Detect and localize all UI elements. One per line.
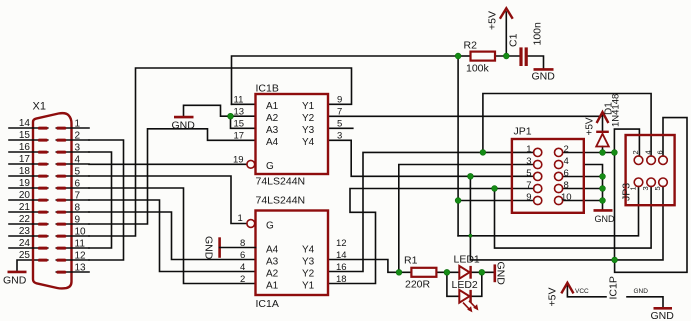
svg-text:GND: GND	[595, 214, 616, 224]
wire JP1 pin 4 to GND rail	[585, 165, 603, 211]
ground bar rotated at LEDs	[493, 264, 496, 282]
svg-text:G: G	[266, 161, 274, 172]
IC1A left pin numbers	[238, 213, 246, 285]
wire X1 pin 4 to IC1B pin 19 G	[89, 163, 247, 165]
svg-text:1: 1	[526, 144, 531, 155]
IC1A box	[256, 211, 329, 296]
wire X1 pin 3 to X1 pin 11	[89, 152, 112, 248]
svg-text:LED1: LED1	[454, 254, 480, 266]
D1 cathode bar	[596, 131, 609, 133]
svg-text:2: 2	[240, 274, 245, 285]
svg-text:5: 5	[526, 168, 531, 179]
svg-text:7: 7	[337, 107, 342, 118]
svg-text:IC1P: IC1P	[608, 276, 620, 299]
svg-text:8: 8	[240, 238, 245, 249]
svg-text:6: 6	[75, 179, 81, 190]
svg-text:A3: A3	[266, 125, 279, 136]
svg-text:19: 19	[233, 155, 244, 166]
IC1A right pin numbers	[336, 238, 347, 285]
wire R2 left	[458, 55, 470, 57]
svg-text:4: 4	[240, 262, 245, 273]
ground bar at IC1P	[654, 307, 673, 310]
svg-text:JP1: JP1	[514, 126, 532, 138]
svg-text:Y1: Y1	[302, 281, 315, 292]
pin header JP1 box	[512, 139, 584, 213]
svg-text:Y4: Y4	[302, 137, 315, 148]
svg-text:5: 5	[75, 167, 81, 178]
wire IC1B pin 5 stub	[328, 127, 353, 129]
op-amp U: IC1B box	[256, 94, 329, 174]
wire JP1 pin 8	[563, 188, 603, 190]
svg-text:6: 6	[240, 250, 245, 261]
ground bar rotated at IC1A pin 8	[218, 237, 221, 257]
svg-text:A2: A2	[266, 113, 279, 124]
svg-text:R2: R2	[464, 40, 478, 52]
wire LED2 cathode up to node	[471, 272, 482, 296]
wire IC1B pin 13 stub	[231, 115, 256, 117]
wire X1 pin 2 to X1 pin 12	[89, 140, 124, 260]
wire IC1A pin 16 Y2 to JP1 pin 1	[328, 152, 534, 271]
wire JP1 pin 7 drop to L2	[495, 187, 652, 249]
JP1 pin circles right column 2,4,6,8,10	[555, 148, 563, 204]
wire D1 node dogleg to JP3 pin 2	[603, 129, 640, 156]
svg-text:GND: GND	[651, 310, 675, 321]
wire LED2 parallel loop	[447, 272, 459, 296]
wire JP1 pin 6	[563, 176, 603, 178]
svg-text:6: 6	[656, 150, 665, 154]
svg-text:100k: 100k	[466, 63, 490, 75]
+5V arrow at D1	[597, 112, 609, 123]
svg-text:Y4: Y4	[302, 245, 315, 256]
svg-text:GND: GND	[203, 236, 215, 260]
svg-text:12: 12	[75, 251, 87, 262]
wire net from JP1 pin 1 up to JP3 pin 4	[483, 94, 651, 156]
svg-text:A1: A1	[266, 281, 279, 292]
svg-text:19: 19	[19, 178, 31, 189]
svg-text:24: 24	[19, 238, 31, 249]
JP3 pin circles top row 2,4,6	[634, 156, 667, 165]
IC1B inside pin names	[266, 101, 315, 172]
svg-text:13: 13	[234, 107, 245, 118]
svg-text:18: 18	[336, 274, 347, 285]
svg-text:6: 6	[564, 168, 569, 179]
svg-text:1: 1	[75, 119, 81, 130]
svg-text:8: 8	[75, 203, 81, 214]
svg-text:10: 10	[561, 192, 572, 203]
svg-text:7: 7	[75, 191, 81, 202]
svg-text:15: 15	[19, 130, 31, 141]
wire LED1 cathode to GND bar	[471, 271, 494, 273]
IC1B left pin numbers	[233, 95, 244, 166]
svg-text:14: 14	[336, 250, 347, 261]
wire JP1 pin 5 drop	[469, 176, 471, 260]
wire IC1B pin 7 Y2 long run to D1 node	[328, 115, 601, 117]
wire X1 pin 9 bridge to IC1B pin 17	[89, 129, 256, 224]
svg-text:22: 22	[19, 214, 31, 225]
diode D1 1N4148	[596, 134, 609, 147]
svg-text:9: 9	[337, 95, 342, 106]
wire IC1A pin 18 Y1 to JP1 pin 7	[328, 189, 534, 284]
svg-text:Y1: Y1	[302, 101, 315, 112]
JP3 pin circles bottom row 1,3,5	[634, 178, 667, 187]
svg-text:14: 14	[19, 118, 31, 129]
svg-text:2: 2	[631, 150, 640, 154]
wire C1 to GND	[528, 56, 544, 68]
svg-text:15: 15	[234, 119, 245, 130]
svg-text:220R: 220R	[405, 279, 431, 291]
svg-text:13: 13	[75, 263, 87, 274]
svg-text:3: 3	[75, 143, 81, 154]
svg-text:9: 9	[526, 192, 531, 203]
svg-text:5: 5	[337, 119, 342, 130]
IC1B pin 19 inversion bubble	[247, 160, 255, 168]
svg-text:10: 10	[75, 227, 87, 238]
LED emission arrows	[463, 301, 478, 313]
wire junction drop to pin 15	[231, 116, 256, 128]
wire X1 pin 6 to IC1A pin 2 A1	[89, 188, 256, 284]
resistor R2 body	[471, 52, 496, 61]
svg-text:16: 16	[19, 142, 31, 153]
svg-text:11: 11	[75, 239, 86, 250]
wire X1 pin 8 to IC1A pin 6 A3	[89, 212, 256, 260]
svg-text:74LS244N: 74LS244N	[256, 195, 306, 207]
wire JP1 pin 10	[563, 200, 603, 202]
svg-text:11: 11	[234, 95, 244, 106]
resistor R1 body	[411, 268, 436, 277]
ground bar for IC1B GND	[174, 116, 194, 119]
X1 left pin numbers 14-25	[19, 118, 31, 261]
svg-text:2: 2	[564, 144, 569, 155]
wire IC1A pin 8 to rotated GND	[220, 247, 256, 249]
svg-text:+5V: +5V	[585, 117, 596, 135]
svg-text:GND: GND	[532, 71, 556, 83]
svg-text:+5V: +5V	[487, 11, 499, 30]
svg-text:3: 3	[526, 156, 531, 167]
svg-text:G: G	[266, 221, 274, 232]
wire JP1 pin 9 to net N1	[458, 200, 534, 202]
wire IC1B pin 3 Y4 to JP1 pin 5	[328, 140, 534, 176]
svg-text:1: 1	[238, 213, 243, 224]
wire X1 pin 25 to GND	[17, 260, 48, 271]
svg-text:Y2: Y2	[302, 113, 315, 124]
wire IC1P GND pin to GND	[627, 297, 663, 308]
svg-text:JP3: JP3	[621, 183, 633, 201]
svg-text:4: 4	[644, 150, 653, 154]
wire D1 anode stub	[602, 147, 604, 153]
svg-text:R1: R1	[404, 255, 418, 267]
svg-text:A4: A4	[266, 245, 279, 256]
svg-text:3: 3	[641, 186, 650, 190]
pin header JP3 box	[626, 135, 675, 205]
svg-text:17: 17	[19, 154, 31, 165]
+5V arrow at IC1P	[561, 283, 573, 294]
svg-text:A3: A3	[266, 257, 279, 268]
JP1 right pin numbers	[561, 144, 572, 203]
wire JP1 pin 3 to R1 node	[399, 165, 534, 273]
svg-text:5: 5	[653, 186, 662, 190]
JP1 pin circles left column 1,3,5,7,9	[534, 148, 542, 204]
svg-text:8: 8	[564, 180, 569, 191]
IC1B right pin numbers	[337, 95, 342, 142]
svg-text:23: 23	[19, 226, 31, 237]
svg-text:21: 21	[19, 202, 31, 213]
IC1A pin 1 inversion bubble	[247, 220, 255, 228]
svg-text:9: 9	[75, 215, 81, 226]
svg-text:LED2: LED2	[452, 279, 478, 291]
wire GND to IC1B pins 13,15	[184, 105, 231, 117]
wire L1 to JP3 pin 1	[458, 187, 638, 236]
svg-text:GND: GND	[3, 275, 27, 287]
JP3 bottom pin numbers rotated	[629, 186, 663, 190]
wire +5V to C1 node	[505, 12, 507, 56]
wire L3 to JP3 pin 5	[470, 187, 663, 260]
wire R1 right to LED1	[436, 271, 459, 273]
wire IC1P VCC pin	[567, 285, 606, 297]
svg-text:3: 3	[337, 131, 342, 142]
svg-text:12: 12	[336, 238, 347, 249]
connector X1 pads	[38, 127, 67, 274]
capacitor C1 plates	[519, 47, 522, 66]
svg-text:1: 1	[629, 186, 638, 190]
connector X1 pin rows: stubs	[9, 128, 89, 272]
connector X1 outline	[33, 113, 72, 288]
svg-text:C1: C1	[508, 33, 520, 47]
svg-text:X1: X1	[33, 101, 46, 113]
svg-text:4: 4	[75, 155, 81, 166]
svg-text:7: 7	[526, 180, 531, 191]
svg-text:4: 4	[564, 156, 569, 167]
svg-text:VCC: VCC	[575, 288, 589, 295]
svg-text:20: 20	[19, 190, 31, 201]
svg-text:GND: GND	[495, 262, 507, 286]
wire IC1B pin 11 stub	[232, 103, 256, 105]
wire JP1 pin 2 to D1 node	[563, 152, 603, 154]
svg-text:GND: GND	[634, 288, 649, 295]
JP3 top pin numbers rotated	[631, 150, 665, 154]
JP1 left pin numbers	[526, 144, 531, 203]
svg-text:18: 18	[19, 166, 31, 177]
LED2	[459, 290, 469, 303]
wire D1 cathode to +5V	[602, 114, 604, 132]
ground bar at JP1	[594, 209, 613, 212]
wire X1 pin 5 to IC1A pin 1 G	[89, 176, 247, 224]
wire IC1A pin 14 Y3 to R1	[328, 260, 411, 273]
wire N1 vertical drop to L1	[457, 56, 459, 236]
LED1	[459, 266, 469, 279]
wire net N1 top from IC1B pin 11 to R2	[232, 56, 459, 104]
wire R2 right to C1	[495, 55, 520, 57]
svg-text:Y3: Y3	[302, 257, 315, 268]
ground bar at C1	[534, 68, 554, 71]
wire branch to right side wrap	[615, 118, 687, 273]
svg-text:A1: A1	[266, 101, 279, 112]
svg-text:25: 25	[19, 250, 31, 261]
wire vertical from D1 node dogleg down to L3	[614, 153, 616, 260]
IC1A inside pin names	[266, 221, 315, 292]
svg-text:1N4148: 1N4148	[611, 94, 622, 127]
svg-text:100n: 100n	[532, 22, 544, 46]
+5V arrow at C1	[500, 8, 513, 18]
svg-text:Y3: Y3	[302, 125, 315, 136]
wire X1 pin 10 to IC1B pin 9 Y1	[89, 68, 352, 236]
svg-text:74LS244N: 74LS244N	[256, 176, 306, 188]
svg-text:A2: A2	[266, 269, 279, 280]
svg-text:17: 17	[234, 131, 245, 142]
svg-text:Y2: Y2	[302, 269, 315, 280]
svg-text:IC1B: IC1B	[256, 83, 279, 95]
X1 right pin numbers 1-13	[75, 119, 87, 274]
svg-text:A4: A4	[266, 137, 279, 148]
LED2 cathode bar	[469, 290, 471, 303]
svg-text:IC1A: IC1A	[256, 298, 279, 310]
svg-text:16: 16	[336, 262, 347, 273]
svg-text:2: 2	[75, 131, 81, 142]
wire X1 pin 7 to IC1A pin 4 A2	[89, 200, 256, 272]
svg-text:+5V: +5V	[547, 288, 559, 307]
ground bar under X1	[8, 271, 27, 274]
svg-text:GND: GND	[172, 120, 196, 132]
LED1 cathode bar	[469, 266, 471, 279]
